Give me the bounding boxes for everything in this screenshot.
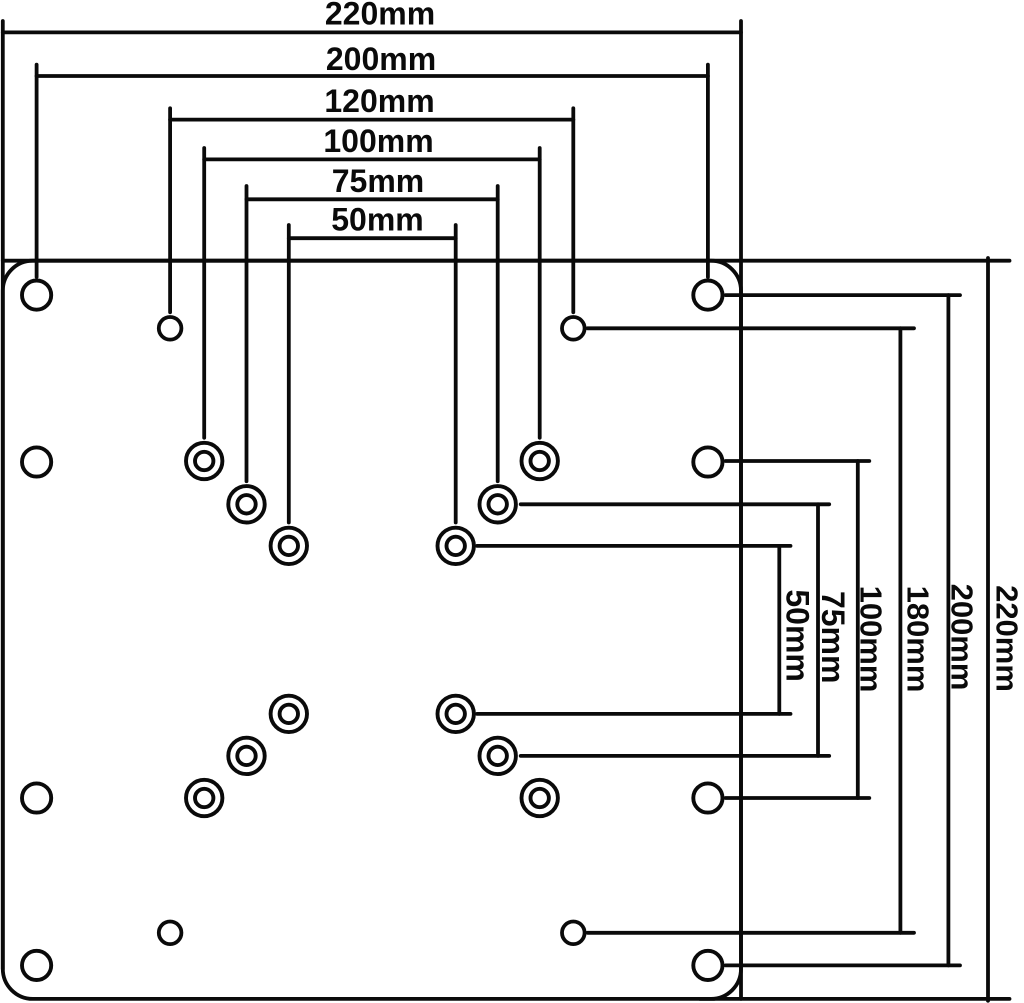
dimension 100mm top: left extension (202, 148, 206, 438)
hole VESA75 top-right (480, 486, 516, 522)
hole corner top-right (693, 281, 722, 310)
dimension 50mm right: top leader (477, 544, 791, 548)
hole 120x180 bottom-right (562, 922, 585, 945)
hole VESA50 top-right (438, 528, 474, 564)
hole VESA50 bottom-right (438, 696, 474, 732)
dimension 100mm right: top leader (726, 459, 870, 463)
dimension 50mm right: line (777, 546, 781, 714)
dimension 220mm right: bottom extension (700, 997, 1010, 1001)
dimension 50mm top: line (289, 236, 456, 240)
hole VESA50 bottom-left (271, 696, 307, 732)
dimension 200mm right: top leader (726, 293, 961, 297)
dimension 120mm top: right extension (571, 108, 575, 312)
hole VESA100 top-right (522, 443, 558, 479)
svg-text:75mm: 75mm (332, 163, 425, 199)
hole 120x180 bottom-left (159, 922, 182, 945)
hole VESA50 top-left (271, 528, 307, 564)
hole VESA100 bottom-right (522, 780, 558, 816)
dimension 100mm top: right extension (538, 148, 542, 438)
dimension 200mm top: right extension (706, 65, 710, 277)
dimension 75mm top: left extension (245, 186, 249, 481)
hole mid-right upper (693, 447, 722, 476)
hole 120x180 top-left (159, 317, 182, 340)
dimension 220mm top: left extension (1, 21, 5, 969)
dimension 200mm top: line (37, 74, 708, 78)
plate outline (3, 261, 741, 999)
dimension 75mm right: bottom leader (521, 754, 830, 758)
dimension 75mm right: line (816, 504, 820, 756)
dimension 50mm top: left extension (287, 225, 291, 523)
hole corner bottom-right (693, 951, 722, 980)
svg-text:120mm: 120mm (324, 83, 434, 119)
dimension 100mm right: bottom leader (726, 796, 870, 800)
svg-text:50mm: 50mm (331, 201, 424, 237)
dimension 75mm top: right extension (496, 186, 500, 481)
svg-text:100mm: 100mm (323, 123, 433, 159)
dimension 220mm top: right extension (739, 21, 743, 999)
hole VESA75 bottom-right (480, 738, 516, 774)
dimension 200mm right: bottom leader (726, 964, 961, 968)
dimension 180mm right: line (899, 328, 903, 933)
dimension 120mm top: left extension (168, 108, 172, 312)
svg-text:180mm: 180mm (901, 586, 936, 693)
dimension 220mm right: line (986, 258, 990, 1001)
svg-text:200mm: 200mm (326, 41, 436, 77)
svg-text:220mm: 220mm (325, 0, 435, 32)
svg-text:50mm: 50mm (780, 589, 816, 682)
dimension 75mm right: top leader (521, 502, 830, 506)
dimension 50mm top: right extension (454, 225, 458, 523)
dimension 180mm right: top leader (588, 326, 915, 330)
dimension 200mm right: line (947, 295, 951, 965)
hole mid-right lower (693, 783, 722, 812)
dimension 180mm right: bottom leader (588, 931, 915, 935)
hole VESA75 top-left (228, 486, 264, 522)
svg-text:200mm: 200mm (945, 584, 980, 691)
hole mid-left upper (22, 447, 51, 476)
dimension 75mm top: line (247, 197, 498, 201)
dimension 120mm top: line (170, 118, 573, 122)
dimension 200mm top: left extension (35, 65, 39, 277)
hole VESA100 bottom-left (186, 780, 222, 816)
svg-text:75mm: 75mm (815, 591, 851, 684)
svg-text:220mm: 220mm (989, 585, 1024, 692)
hole corner bottom-left (22, 951, 51, 980)
hole mid-left lower (22, 783, 51, 812)
svg-text:100mm: 100mm (854, 586, 889, 693)
dimension 100mm top: line (204, 157, 540, 161)
dimension 50mm right: bottom leader (477, 712, 791, 716)
hole VESA100 top-left (186, 443, 222, 479)
dimension 100mm right: line (856, 461, 860, 798)
dimension 220mm right: top extension (3, 259, 1010, 263)
hole VESA75 bottom-left (228, 738, 264, 774)
dimension 220mm top: line (3, 31, 741, 35)
hole corner top-left (22, 281, 51, 310)
hole 120x180 top-right (562, 317, 585, 340)
